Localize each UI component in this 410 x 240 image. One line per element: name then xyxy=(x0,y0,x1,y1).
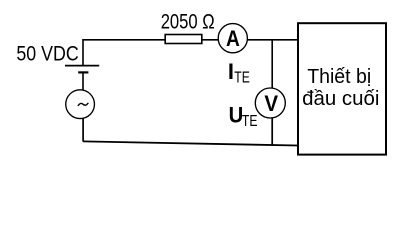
svg-text:TE: TE xyxy=(242,113,258,130)
wire: junction down to voltmeter xyxy=(271,40,273,88)
wire: resistor to ammeter xyxy=(202,39,218,41)
svg-text:Thiết bị: Thiết bị xyxy=(307,66,371,88)
battery B1 short plate (negative) xyxy=(78,71,88,73)
wire: voltmeter to bottom rail xyxy=(271,118,273,145)
svg-text:50 VDC: 50 VDC xyxy=(16,41,78,66)
svg-text:đầu cuối: đầu cuối xyxy=(302,88,379,110)
voltmeter V1 circle xyxy=(255,88,285,118)
AC source G1 circle xyxy=(66,90,95,119)
battery B1 long plate (positive) xyxy=(65,65,99,67)
svg-text:I: I xyxy=(228,59,234,84)
svg-text:TE: TE xyxy=(234,70,250,87)
resistor R1 body xyxy=(165,35,202,44)
svg-text:2050 Ω: 2050 Ω xyxy=(161,10,215,33)
terminal equipment box xyxy=(298,23,386,154)
wire: battery positive up and right to resistor xyxy=(83,40,165,66)
svg-text:V: V xyxy=(264,91,278,116)
ammeter A1 circle xyxy=(218,24,247,53)
svg-text:A: A xyxy=(226,26,240,51)
wire: battery negative to AC source xyxy=(82,73,84,90)
wire: ammeter to terminal box xyxy=(247,39,297,41)
AC source tilde symbol xyxy=(78,103,88,106)
wire: AC source to bottom rail xyxy=(82,118,84,141)
wire: bottom rail xyxy=(83,141,297,145)
